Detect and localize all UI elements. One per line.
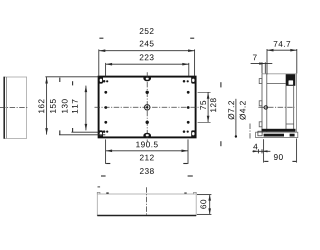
right side view lid outer edge [261, 74, 263, 132]
right side view lid inner edge [266, 74, 268, 132]
dim 90 right tick [292, 160, 296, 162]
dim 155 bottom tick [59, 130, 61, 134]
dim 223 extension left [105, 63, 107, 76]
dim 252 right tick [190, 37, 194, 39]
dim 212 right tick [183, 163, 187, 165]
dim 130 top tick [72, 81, 74, 85]
dim 223 line [106, 63, 189, 65]
right side view base flange outline [256, 132, 298, 137]
dim 4 tick a [257, 149, 259, 153]
left side view centerline [0, 106, 29, 108]
dim 7 arrow [259, 62, 265, 64]
dim 60 extension top [197, 194, 212, 196]
right side view lid seam line [267, 82, 286, 84]
small holes beside bottom-right boss [183, 130, 186, 133]
bottom view top lip right [194, 192, 197, 194]
dim 4 line [252, 150, 270, 152]
dim 155 top tick [59, 78, 61, 82]
dim 60 label (rotated) [200, 200, 206, 209]
right side view clip 3 [259, 122, 262, 127]
dim 60 extension bottom [197, 213, 212, 215]
dim 212 left tick [106, 163, 110, 165]
dim 90 extension right [296, 139, 298, 163]
dim 90 label [274, 154, 283, 160]
right side view centerline [258, 106, 294, 108]
dim 223 extension right [188, 63, 190, 76]
dia 4.2 leader dash-dot [249, 124, 251, 139]
right side view bottom dark bar [262, 129, 296, 132]
dim 75 line [207, 92, 209, 122]
right extension row bottom [198, 121, 211, 123]
right side view base dark bar left [264, 134, 284, 137]
left side view inner edge line [6, 77, 8, 138]
hole grid left column [104, 91, 107, 94]
corner boss top-right [191, 77, 195, 84]
dim 245 extension right [194, 49, 196, 76]
small holes beside top-left boss [103, 80, 106, 83]
dim 162 line [46, 77, 48, 135]
small holes beside bottom-left boss [103, 130, 106, 133]
right side view lid bottom foot [258, 131, 262, 136]
right side view wall seam line [286, 123, 294, 125]
left side view left edge dark [3, 77, 5, 139]
dim 60 line [209, 195, 211, 215]
dim 90 left tick [264, 160, 268, 162]
left extension line top [45, 76, 98, 78]
right side view inner wall line 2 [293, 86, 295, 131]
dim 4 tick b [261, 149, 263, 153]
corner boss bottom-left [99, 130, 103, 137]
dim 7 extension line a [261, 62, 263, 73]
right side view right edge [296, 74, 298, 132]
right side view top edge [262, 73, 297, 75]
hole grid right column [187, 91, 190, 94]
corner boss bottom-right [191, 130, 195, 137]
right side view clip hole circle [264, 106, 267, 109]
bottom view bottom edge thick [97, 215, 196, 217]
center ring hole [145, 105, 150, 110]
main top view outline [99, 77, 196, 138]
dim 128 top tick [220, 82, 222, 87]
right side view clip 1 [259, 79, 262, 84]
dim 7 label [253, 55, 257, 61]
left extension line for 155/162 bottom [59, 134, 105, 136]
left extension line for 130 bottom [71, 131, 98, 133]
dim 162 label (rotated) [38, 99, 44, 113]
dim 238 label [140, 168, 154, 174]
dim 74.7 label [274, 41, 291, 47]
dim 128 label (rotated) [210, 98, 216, 112]
bottom view stub right [184, 192, 186, 194]
right side view base dark bar right [290, 134, 295, 137]
dim 190.5 line [106, 150, 188, 152]
top edge center boss [143, 77, 151, 82]
dim 90 extension left [263, 139, 265, 162]
bottom extension right [187, 139, 189, 164]
top view horizontal centerline [95, 106, 201, 108]
bottom view floating dash [98, 186, 101, 188]
dim 238 left tick [101, 175, 106, 177]
corner boss top-left [99, 77, 103, 84]
dim 4 label [253, 144, 257, 150]
dim 117 label (rotated) [72, 100, 78, 114]
small holes beside top-right boss [183, 80, 186, 83]
dim 130 label (rotated) [62, 99, 68, 113]
dim 252 left tick [99, 37, 103, 39]
bottom view outline [97, 194, 196, 216]
dia 7.2 leader line [235, 99, 237, 136]
right extension row top [198, 91, 211, 93]
dim 130 bottom tick [72, 128, 74, 132]
label dia 4.2 (rotated) [240, 101, 246, 120]
dim 74.7 line [267, 49, 297, 51]
left side view outline [4, 77, 27, 138]
dim 75 label (rotated) [200, 101, 206, 110]
dim 212 label [140, 155, 154, 161]
right side view clip 2 [259, 101, 262, 106]
bottom view top lip left [97, 192, 100, 194]
dim 245 label [140, 41, 154, 47]
top view vertical centerline [146, 72, 148, 141]
dim 238 right tick [188, 175, 193, 177]
dim 7 extension line b [264, 62, 266, 73]
dim 245 line [99, 50, 195, 52]
bottom view centerline [146, 187, 148, 215]
bottom edge center boss [143, 133, 151, 138]
bottom extension left [105, 139, 107, 164]
dim 117 line [85, 86, 87, 131]
dim 74.7 extension right [296, 49, 298, 74]
dim 155 label (rotated) [50, 99, 56, 113]
dim 245 extension left [98, 49, 100, 76]
bottom view stub left [106, 192, 108, 194]
dim 74.7 extension left [266, 49, 268, 75]
right side view inner wall line 1 [285, 86, 287, 131]
hole grid center column [146, 91, 149, 94]
dim 128 bottom tick [220, 141, 222, 146]
right side view top-right dark block [286, 74, 296, 86]
dim 252 label [140, 28, 154, 34]
dim 223 label [140, 54, 154, 60]
dim 7 line [251, 63, 273, 65]
label dia 7.2 (rotated) [228, 101, 234, 120]
dim 190.5 label [136, 142, 157, 148]
